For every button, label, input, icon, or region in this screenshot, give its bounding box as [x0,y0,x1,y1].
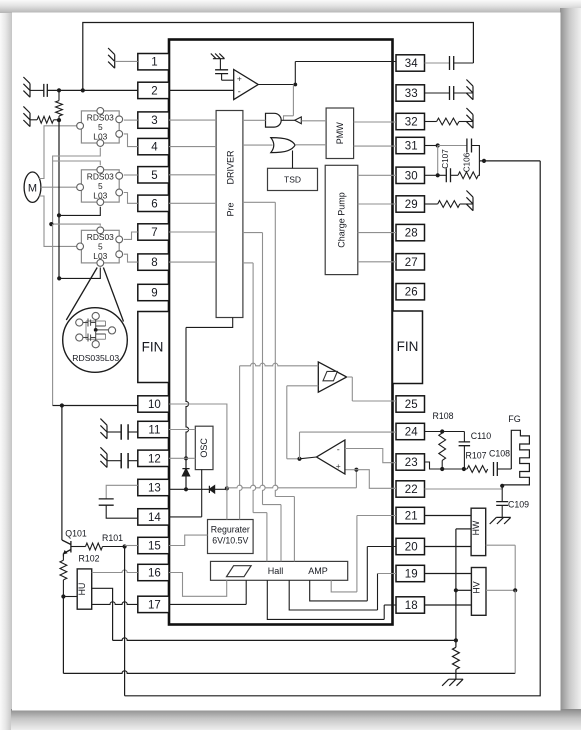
pin 31 network C106 [425,145,438,147]
wire driver output v1 [243,262,253,264]
svg-text:27: 27 [405,257,418,269]
bottom bus y1 [113,638,456,641]
FG pattern [502,430,529,485]
svg-text:C107: C107 [441,149,450,169]
bottom bus y2 [63,671,515,674]
magnifier cone lines [66,268,97,321]
svg-text:RDS035L03: RDS035L03 [72,353,119,363]
svg-text:FIN: FIN [397,339,419,354]
module2 gate wires to pins 5,6 [124,174,138,176]
wire Charge Pump to pin 29 [358,203,396,205]
svg-text:29: 29 [405,199,418,211]
pin box 29 (right) [396,196,425,212]
pin 23 wire [425,462,443,469]
source rail dark vertical [58,120,60,278]
svg-text:15: 15 [148,541,161,553]
pin box 15 (left) [138,537,169,553]
transistor Q101 [62,540,71,557]
IC main body U1 [169,40,393,625]
vertical from Schmitt input to Regurater [240,366,243,520]
svg-text:25: 25 [405,399,418,411]
wire pin 12 junction [169,457,195,459]
HW/HV common vertical [456,528,471,530]
vertical from pin15 node down [124,547,126,696]
pin box 6 (left) [138,195,169,211]
svg-text:OSC: OSC [199,438,209,458]
pin box 26 (right) [396,284,425,300]
wire OR gate to TSD [292,151,294,169]
HV output right [486,589,515,591]
resistor R102 [62,557,64,561]
pin box 17 (left) [138,596,169,612]
wire Hall out3 to pin 19 [289,580,377,610]
resistor + ground at pin 29 [425,203,438,205]
wire driver output v2 [243,232,263,234]
ground above op-amp [211,54,225,59]
module3 gate wires to pins 7,8 [124,232,138,239]
HW output right [486,544,516,546]
motor winding wire top [39,126,80,179]
pin box 7 (left) [138,224,169,240]
capacitor between pin 13 and pin 14 [106,485,138,499]
svg-text:C108: C108 [489,449,510,459]
svg-text:1: 1 [151,57,157,69]
svg-text:Regurater: Regurater [211,525,250,535]
wire pin 7 to Pre DRIVER [169,231,216,233]
motor M [24,172,41,202]
svg-text:33: 33 [405,88,418,100]
capacitor C110 [463,432,465,442]
svg-text:HU: HU [77,583,87,596]
HU left rail down to bottom wire [62,597,64,674]
pin box 23 (right) [396,454,425,470]
svg-text:R107: R107 [465,451,486,461]
block PMW [326,108,354,159]
svg-text:C110: C110 [471,431,491,441]
block Pre DRIVER [216,111,243,318]
resistor R107 [467,466,488,473]
svg-text:21: 21 [405,511,418,523]
bottom bus y3 [125,161,541,696]
module1 source to left gray rail [53,148,101,225]
combined output down to bus y2 [514,590,516,673]
MOSFET module RDS035L03 #1 [81,111,119,143]
module3 source to rail [59,268,100,279]
wire node up to pin 24 line [299,432,301,459]
pin box 31 (right) [396,137,425,153]
wire pin 8 to Pre DRIVER [169,261,216,263]
MOSFET module RDS035L03 #3 [81,230,119,263]
pin box 21 (right) [396,507,425,523]
svg-text:+: + [336,461,341,471]
block HW [471,508,486,555]
ground + capacitor at pin 12 [100,447,107,467]
pin box 28 (right) [396,224,425,240]
wire driver output v3 top [243,201,275,203]
svg-text:C106: C106 [462,152,471,172]
svg-text:20: 20 [405,542,418,554]
detail circle RDS035L03 [63,308,128,373]
pin box 12 (left) [138,450,169,466]
wire pin 15 to Regurater [169,535,208,545]
svg-text:R102: R102 [78,554,99,564]
svg-text:10: 10 [148,399,161,411]
svg-text:12: 12 [148,453,161,465]
pin box 1 (left) [138,54,169,70]
pin box 25 (right) [396,396,425,412]
svg-text:TSD: TSD [284,175,301,185]
wire Charge Pump to pin 27 [358,261,396,263]
svg-text:5: 5 [98,181,103,191]
bundle vertical v3 [274,202,276,365]
svg-text:23: 23 [405,457,418,469]
pin box 32 (right) [396,113,425,129]
svg-text:Q101: Q101 [65,529,87,539]
block HU [63,596,77,598]
svg-text:5: 5 [98,122,103,132]
page background with scan shadows [0,0,13,730]
pin box 22 (right) [396,481,425,497]
wire pin 13 line with diode D2 [169,488,203,490]
pin box 24 (right) [396,423,425,439]
pin box 2 (left) [138,82,169,98]
svg-text:-: - [337,445,340,455]
svg-text:Hall: Hall [268,566,284,576]
pin box 18 (right) [396,597,425,613]
wire pin 16 to Hall hysteresis input [169,573,227,597]
capacitor C109 + ground [501,486,503,502]
svg-text:FG: FG [508,414,521,424]
wire junction down to Regurater top [226,488,228,519]
wire Charge Pump to pin 28 [358,232,396,234]
svg-text:34: 34 [405,58,418,70]
OSC column vertical with hops at pins 10,11 [186,327,189,458]
detail inner mosfet pair [86,316,106,344]
pin 24 wire with R108 [425,431,465,433]
motor winding wire middle [41,186,80,188]
MOSFET module RDS035L03 #2 [81,170,119,202]
svg-text:28: 28 [405,228,418,240]
module2 source to rail [59,207,100,216]
svg-text:R101: R101 [102,533,123,543]
svg-text:26: 26 [405,287,418,299]
pin box 19 (right) [396,565,425,581]
capacitor C108 [494,462,498,476]
svg-text:22: 22 [405,484,418,496]
diode D1 on OSC column [182,458,189,489]
svg-text:18: 18 [405,600,418,612]
svg-text:M: M [28,183,37,195]
pin box 33 (right) [396,85,425,101]
wire OR gate to PMW [295,144,326,146]
left FIN block [138,312,169,383]
block OSC [195,426,213,469]
op-amp output to node [300,457,317,459]
wire pin 4 to Pre DRIVER [169,146,216,148]
ground and capacitor at pin 2 [23,77,30,97]
svg-text:5: 5 [151,170,157,182]
resistor R101 [71,546,86,548]
svg-text:PMW: PMW [335,122,345,145]
op-amp output wire to pin 34 and feedback node [258,84,295,86]
svg-text:Pre: Pre [226,202,236,216]
pin box 4 (left) [138,138,169,154]
module2 drain stub [53,161,101,165]
pin box 30 (right) [396,167,425,183]
block Charge Pump [325,165,358,274]
ground at pin 1 [108,48,115,68]
svg-text:19: 19 [405,569,418,581]
ground and resistor on left [23,106,30,126]
pin box 10 (left) [138,396,169,412]
HU output top to pin 16 [92,570,138,573]
pin box 16 (left) [138,564,169,580]
svg-text:R108: R108 [432,411,453,421]
svg-text:HV: HV [471,581,481,593]
op-amp U4 (left pointing) [317,440,345,474]
motor winding wire bottom [39,196,80,246]
svg-text:14: 14 [148,512,161,524]
top rail wire [83,23,474,91]
module1 gate wires to pins 3,4 [124,119,138,121]
wire OSC bottom to pin 14 [201,470,203,517]
module3 drain to gray rail [51,224,100,226]
svg-text:17: 17 [148,599,161,611]
wire pin 17 to Hall [92,602,138,605]
wire Hall out2 to pin 20 [310,580,368,601]
svg-text:4: 4 [151,142,158,154]
svg-text:6V/10.5V: 6V/10.5V [212,536,248,546]
svg-text:13: 13 [148,483,161,495]
pin box 9 (left) [138,284,169,300]
resistor from pin2 line down [58,90,60,100]
svg-text:8: 8 [151,257,157,269]
OR gate [271,138,295,153]
wire pin 6 to Pre DRIVER [169,202,216,204]
svg-text:32: 32 [405,117,418,129]
capacitor + ground at pin 33 [425,92,450,94]
pin box 8 (left) [138,254,169,270]
Schmitt comparator U3 [318,362,346,392]
wire pin 23 to inverting input [345,449,396,463]
svg-text:FIN: FIN [142,340,164,355]
capacitor at pin 34 [425,62,450,64]
wire driver bottom to OSC column [186,318,233,328]
feedback wire down to AND gate output [292,85,294,116]
block Hall AMP [211,561,348,580]
svg-text:7: 7 [151,227,157,239]
wire Hall out4 to pin 18 [267,580,384,619]
wire PMW to pin 31 [354,145,396,147]
wire pin 10 into IC down to pin 13 line [169,404,227,488]
buffer triangle after AND gate [295,117,302,124]
pin 22 wire to FG node [425,488,503,490]
right FIN block [393,311,423,384]
pin box 13 (left) [138,479,169,495]
resistor R108 vertical [441,432,443,434]
wire Charge Pump to pin 30 [358,174,396,176]
wire pin 21 to HW [425,515,472,517]
pin box 34 (right) [396,55,425,71]
Schmitt lower input wire loop [287,385,319,387]
svg-text:31: 31 [405,141,418,153]
wire pin 11 to OSC [169,429,195,431]
svg-text:16: 16 [148,568,161,580]
svg-text:-: - [238,87,241,97]
capacitor at op-amp + input [215,70,228,74]
hysteresis symbol in Hall AMP [227,566,252,577]
svg-text:11: 11 [148,425,160,437]
AND gate [266,113,282,127]
svg-text:Charge Pump: Charge Pump [337,192,347,248]
Schmitt output to pin 25 [347,376,353,378]
pin 30 network C107 R [437,146,439,176]
svg-text:DRIVER: DRIVER [226,150,236,185]
wire pin2 to op-amp inverting input [169,89,234,91]
block Regurater 6V/10.5V [208,520,254,554]
wire pin 5 to Pre DRIVER [169,174,216,176]
op-amp U2 [234,70,259,100]
block HV [471,568,486,616]
svg-text:2: 2 [151,85,157,97]
svg-text:3: 3 [151,115,157,127]
svg-text:24: 24 [405,427,418,439]
resistor + ground at pin 32 [425,121,437,123]
pin box 3 (left) [138,112,169,128]
pin box 5 (left) [138,167,169,183]
wire pin 20 to HW [425,546,472,548]
Q101 collector vertical [61,406,63,541]
wire pin 3 to Pre DRIVER [169,119,216,121]
pin box 20 (right) [396,538,425,554]
pin box 27 (right) [396,254,425,270]
svg-text:+: + [237,74,242,84]
wire pin 19 to HV [425,573,472,575]
wire pin 18 to HV [425,604,472,606]
wire circle rail to pin 10 [53,405,62,407]
wire PMW to pin 32 [354,121,396,123]
svg-text:9: 9 [151,288,157,300]
Schmitt upper input wire [240,363,319,366]
pin box 11 (left) [138,421,169,437]
bottom resistor to ground [454,638,458,642]
svg-text:C109: C109 [508,500,529,510]
wire Hall out1 to pin 21 [331,580,357,592]
svg-text:30: 30 [405,170,418,182]
wire pin13 to op-amp + node with hops over bundle [227,485,357,488]
wire op-amp + input [345,469,357,471]
block TSD [268,168,318,190]
ground + capacitor at pin 11 [100,419,107,439]
svg-text:5: 5 [98,241,103,251]
pin box 14 (left) [138,509,169,525]
svg-text:6: 6 [151,198,157,210]
HU output mid to bottom bus [92,588,113,640]
svg-text:HW: HW [471,520,481,535]
svg-text:AMP: AMP [308,566,328,576]
